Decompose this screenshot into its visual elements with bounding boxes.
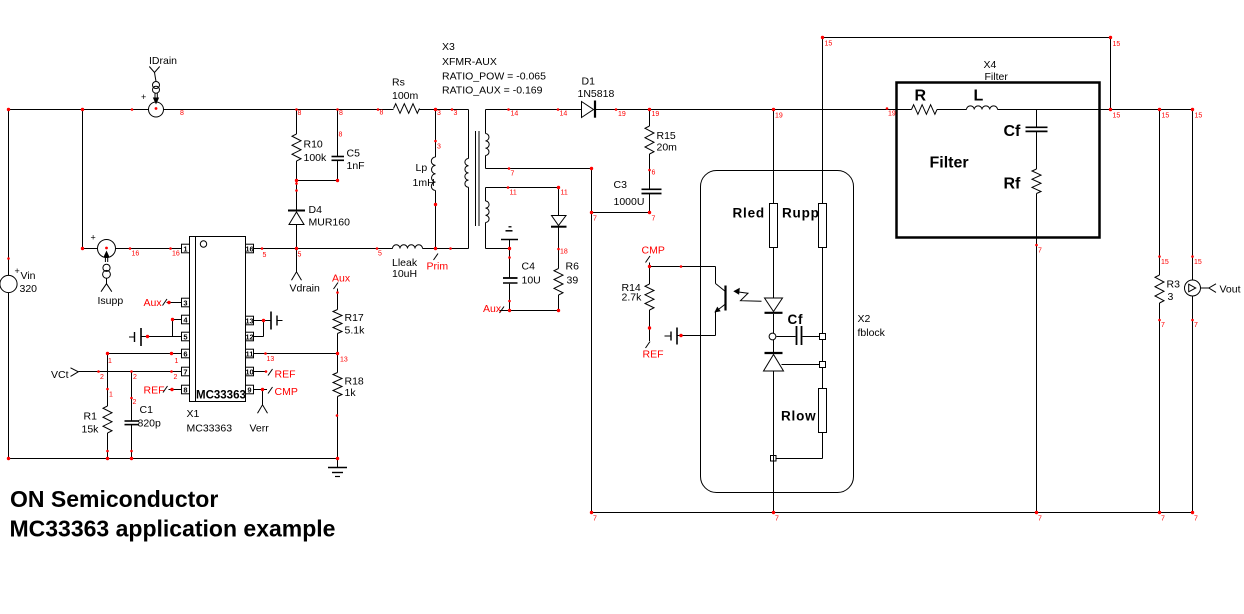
wire CMP stub [649,263,651,267]
wire C4 top [509,249,511,278]
svg-text:11: 11 [246,349,254,358]
svg-text:1: 1 [183,244,187,253]
svg-text:+: + [15,266,20,276]
wire square to square2 [822,340,824,362]
wire R3 column bottom [1159,303,1161,513]
pin 4 box [182,315,190,324]
svg-text:15: 15 [1113,41,1121,48]
aux diode cathode bar [551,226,567,228]
svg-text:11: 11 [510,190,517,197]
svg-text:15: 15 [825,41,833,48]
svg-text:39: 39 [567,275,579,287]
svg-text:C5: C5 [347,148,361,160]
transformer core line 1 [475,131,477,226]
svg-text:19: 19 [652,111,660,118]
svg-text:Aux: Aux [483,303,502,315]
svg-text:8: 8 [183,385,187,394]
inductor Lp [431,157,435,191]
svg-text:2: 2 [133,399,137,406]
svg-text:13: 13 [267,356,275,363]
svg-text:3: 3 [454,110,458,117]
pin 6 box [182,349,190,358]
resistor Rupp box [819,204,827,248]
net label Aux at pin3 [163,299,168,306]
wire emitter row [678,335,716,337]
resistor Rled box [770,204,778,248]
transformer primary lead [468,110,470,159]
svg-text:16: 16 [172,251,180,258]
wire top rail after IDrain [164,109,394,111]
wire Rled to LED [773,247,775,298]
node square junction 3 [771,456,777,462]
wire C1 column bottom [131,425,133,459]
svg-text:1nF: 1nF [347,160,365,172]
IDrain node dot [155,107,158,110]
svg-text:7: 7 [652,216,656,223]
svg-text:7: 7 [775,516,779,523]
opto transistor collector drop [715,267,717,284]
svg-text:5: 5 [298,252,302,259]
Isupp arrow shaft [104,255,106,262]
svg-text:5: 5 [378,251,382,258]
pin 10 box [246,367,254,376]
svg-text:RATIO_AUX = -0.169: RATIO_AUX = -0.169 [442,85,543,97]
diode D4 cathode bar [288,210,305,212]
capacitor Cf wire left [777,336,796,338]
pin 9 box [246,385,254,394]
wire node15 top row [823,37,1111,39]
svg-text:CMP: CMP [275,386,298,398]
svg-text:R6: R6 [566,261,580,273]
Vout probe symbol [1188,284,1190,293]
wire Cf4 column top [1036,110,1038,128]
IC X1 body [190,237,246,402]
svg-text:C4: C4 [522,261,536,273]
resistor Rs [394,104,420,114]
resistor Rf [1032,169,1041,194]
svg-text:MC33363: MC33363 [187,423,233,435]
svg-text:7: 7 [183,367,187,376]
wire pin16 row to Lleak [254,248,393,250]
svg-text:6: 6 [652,170,656,177]
wire node7 column [591,169,593,513]
svg-text:Prim: Prim [427,261,449,273]
net label Aux at C4 [500,307,505,314]
wire C5 column top [337,110,339,157]
svg-text:3: 3 [183,298,187,307]
svg-text:Lp: Lp [416,162,428,174]
IC X1 pin1 mark circle [200,241,206,247]
net label REF at pin10 [268,369,273,376]
svg-text:Rs: Rs [392,77,405,89]
svg-text:19: 19 [888,111,896,118]
svg-text:7: 7 [593,216,597,223]
IDrain arrow head [153,98,159,105]
wire pin10 stub [254,371,267,373]
svg-text:8: 8 [380,110,384,117]
Vdrain open pin symbol [292,272,302,281]
svg-text:8: 8 [339,110,343,117]
wire Isupp drop column [82,110,84,249]
wire Rf bottom column [1036,194,1038,513]
Isupp bubble circle 2 [103,270,111,278]
wire Rlow return row [776,458,823,460]
capacitor Cf [796,326,798,345]
block X4 box [897,83,1100,238]
svg-text:12: 12 [245,332,253,341]
svg-text:1000U: 1000U [614,196,645,208]
svg-text:2: 2 [100,374,104,381]
LED cathode bar [765,312,783,314]
resistor R17 [333,310,342,334]
svg-text:R15: R15 [657,130,676,142]
node square junction 2 [820,362,826,368]
LED triangle [765,298,783,312]
svg-text:XFMR-AUX: XFMR-AUX [442,56,497,68]
wire aux row [486,187,559,189]
resistor R18 [333,373,342,397]
svg-text:820p: 820p [138,418,162,430]
wire R15 to C3 [649,154,651,189]
wire pin6 row [108,353,182,355]
svg-text:+: + [141,92,146,102]
battery symbol at pin5 [140,328,142,346]
svg-text:19: 19 [618,111,626,118]
opto transistor base bar [724,286,726,311]
wire R18 bottom [337,397,339,459]
wire C1 column top [131,372,133,421]
ground symbol [337,459,339,468]
svg-text:1: 1 [109,392,113,399]
wire Vout stub [1201,287,1209,289]
svg-text:100k: 100k [304,152,328,164]
svg-text:15: 15 [1161,259,1169,266]
svg-text:100m: 100m [392,90,419,102]
svg-text:D1: D1 [582,76,596,88]
svg-text:5: 5 [183,332,187,341]
wire Rupp column top [822,38,824,204]
battery symbol at opto emitter [676,328,678,345]
block X2 rounded box [701,171,854,493]
svg-text:R1: R1 [84,411,98,423]
wire top rail Rs to primary corner [420,109,469,111]
svg-text:Filter: Filter [985,71,1009,83]
wire Aux to R17 [337,289,339,310]
pin 5 box [182,332,190,341]
capacitor C1 [125,420,139,422]
svg-text:14: 14 [511,111,519,118]
resistor R10 [292,134,301,161]
svg-text:VCt: VCt [51,369,69,381]
wire CMP row [650,266,716,268]
svg-text:C3: C3 [614,179,628,191]
svg-text:7: 7 [1038,516,1042,523]
svg-text:3: 3 [437,110,441,117]
VCt chevron [71,368,79,377]
wire D4 column bottom [296,225,298,249]
transformer primary winding [465,159,469,188]
diode D4 triangle [289,212,304,225]
opto light arrow head [733,288,740,295]
svg-text:1k: 1k [345,387,357,399]
svg-text:Verr: Verr [250,423,270,435]
Vdrain stub wire [296,249,298,272]
wire pin13 row [254,320,271,322]
svg-text:Cf: Cf [788,312,804,327]
wire C3 bottom [649,194,651,213]
svg-text:10: 10 [245,367,253,376]
node square junction right [820,334,826,340]
wire junction to R18 [337,354,339,373]
wire zener anode row [782,364,820,366]
svg-text:Rf: Rf [1004,176,1022,193]
capacitor C3 [642,188,662,190]
wire top rail left segment [9,109,149,111]
svg-text:1: 1 [175,358,179,365]
Verr open pin symbol [258,405,268,414]
wire pin5 row [142,336,182,338]
zener triangle [764,355,784,372]
svg-text:7: 7 [1194,322,1198,329]
svg-text:13: 13 [245,316,253,325]
svg-text:Isupp: Isupp [98,295,124,307]
svg-text:X2: X2 [858,313,871,325]
wire left input column lower [8,293,10,459]
diode D1 cathode bar [594,101,596,118]
Isupp arrow head [103,251,109,258]
svg-text:20m: 20m [657,142,678,154]
IDrain arrow shaft [154,93,156,100]
IC X1 inner line [195,237,197,402]
transformer primary lead bottom [468,187,470,248]
wire R1 column bottom [107,433,109,459]
wire R14 bottom [649,310,651,341]
svg-text:5.1k: 5.1k [345,325,366,337]
wire pin11 row [254,353,338,355]
wire L to right [998,109,1193,111]
wire primary ground rail [9,458,338,460]
wire Lleak to primary [423,248,469,250]
svg-text:3: 3 [1168,291,1174,303]
capacitor Cf wire right [803,336,820,338]
svg-text:6: 6 [183,349,187,358]
svg-text:2: 2 [133,374,137,381]
inductor L filter [967,106,998,110]
svg-text:2.7k: 2.7k [622,292,643,304]
svg-text:7: 7 [593,516,597,523]
svg-text:RATIO_POW = -0.065: RATIO_POW = -0.065 [442,71,546,83]
svg-text:X1: X1 [187,408,200,420]
resistor R6 [554,269,563,296]
voltage source Vin circle [0,275,17,292]
svg-text:5: 5 [263,252,267,259]
wire LED to node circle [773,314,775,334]
resistor Rlow box [819,389,827,433]
Isupp node dot [105,247,108,250]
svg-text:3: 3 [437,144,441,151]
transformer secondary lead mid [485,156,487,169]
svg-text:R10: R10 [304,139,323,151]
svg-text:14: 14 [560,111,568,118]
wire pin9 stub [254,389,268,391]
svg-text:X3: X3 [442,41,455,53]
pin 11 box [246,349,254,358]
wire C3 return row [592,212,650,214]
wire Vout column bottom [1192,296,1194,513]
svg-text:L: L [974,88,984,105]
opto transistor emitter arrow [714,307,720,313]
resistor R3 [1155,275,1164,303]
net label REF [646,342,651,349]
wire Cf4 to Rf [1036,132,1038,169]
svg-text:15: 15 [1195,113,1203,120]
svg-text:R17: R17 [345,312,364,324]
transformer secondary lead top [485,110,487,134]
wire node15 drop [1110,38,1112,110]
wire Rlow bottom [822,432,824,459]
net label REF at pin8 [163,386,168,393]
wire R17 to junction [337,334,339,354]
wire VCt row [79,371,182,373]
current source Isupp circle [98,240,116,258]
svg-text:Rupp: Rupp [782,206,820,221]
zener cathode bar [765,352,783,354]
wire D1 cathode to filter [596,109,912,111]
aux diode triangle [552,216,567,226]
capacitor C5 [332,156,345,158]
wire square2 to Rlow [822,368,824,389]
svg-text:R: R [915,88,927,105]
wire R3 column top [1159,110,1161,276]
wire Lp column top [435,110,437,158]
opto transistor emitter drop [715,312,717,336]
wire secondary mid-tap row [486,168,592,170]
svg-text:X4: X4 [984,59,997,71]
svg-text:16: 16 [245,244,253,253]
wire pin3 Aux stub [167,302,182,304]
svg-text:8: 8 [298,110,302,117]
wire zener to bottom [773,371,775,513]
svg-text:Rlow: Rlow [781,408,816,423]
svg-text:REF: REF [144,385,165,397]
red net markers [7,108,10,111]
pin 3 box [182,298,190,307]
Vout probe circle [1185,280,1201,296]
svg-text:REF: REF [275,369,296,381]
wire R10 column bottom [296,161,298,181]
svg-text:1mH: 1mH [413,177,435,189]
transformer core line 2 [478,131,480,226]
wire secondary bottom rail [592,512,1193,514]
opto light arrow [737,292,762,302]
svg-text:11: 11 [561,190,568,197]
svg-text:Filter: Filter [930,155,969,172]
svg-text:7: 7 [1161,322,1165,329]
wire Verr drop [262,390,264,405]
net label CMP [646,256,651,263]
svg-text:9: 9 [247,385,251,394]
svg-text:16: 16 [132,251,140,258]
wire R6 bottom [558,295,560,311]
svg-text:R18: R18 [345,376,364,388]
node circle junction [769,333,776,340]
svg-text:CMP: CMP [642,245,665,257]
wire pin4 down [172,320,174,337]
resistor R15 [645,126,654,154]
svg-text:MUR160: MUR160 [309,217,351,229]
earth symbol at C4 [509,240,511,249]
resistor R filter [912,105,938,115]
wire R10 column top [296,110,298,135]
aux diode lead top [558,188,560,216]
svg-text:Vdrain: Vdrain [290,283,321,295]
opto transistor collector diagonal [716,284,725,292]
svg-text:C1: C1 [140,404,154,416]
svg-text:Cf: Cf [1004,123,1022,140]
capacitor Cf filter [1026,126,1048,128]
svg-text:7: 7 [1194,516,1198,523]
wire Rled column top [773,110,775,204]
wire pin12 stub [254,336,264,338]
svg-text:15: 15 [1194,259,1202,266]
IDrain bubble circle 1 [153,82,160,89]
resistor R1 [103,406,112,433]
svg-text:15: 15 [1162,113,1170,120]
pin 1 box [182,244,190,253]
svg-text:2: 2 [174,374,178,381]
wire left input column upper [8,110,10,276]
wire Vout column top [1192,110,1194,281]
svg-text:15: 15 [1113,113,1121,120]
svg-text:1: 1 [108,358,112,365]
resistor R14 [649,267,651,285]
transformer aux winding lead [485,188,487,202]
svg-text:8: 8 [339,132,343,139]
net label CMP at pin9 [268,387,273,394]
wire aux net row [500,310,559,312]
svg-text:Vin: Vin [21,270,36,282]
wire Isupp to pin 1 [116,248,182,250]
wire pin4 stub [173,319,182,321]
wire aux diode to R6 [558,228,560,269]
svg-text:REF: REF [643,349,664,361]
IDrain bubble circle 2 [153,86,160,93]
wire R15 top [649,110,651,127]
wire R to L [937,109,967,111]
svg-text:Aux: Aux [144,297,163,309]
wire R1 column top [107,354,109,407]
opto transistor emitter diagonal [716,305,725,312]
svg-text:8: 8 [180,110,184,117]
IDrain fork symbol [149,67,159,73]
svg-text:1N5818: 1N5818 [578,88,615,100]
transformer secondary winding [486,134,490,156]
wire Isupp corner to source [83,248,99,250]
transformer aux lead bottom [485,223,487,249]
net label Aux at R17 [334,283,339,290]
current source IDrain circle [149,102,164,117]
transformer aux winding [485,201,489,223]
svg-text:Aux: Aux [332,273,351,285]
svg-text:IDrain: IDrain [149,55,177,67]
svg-text:+: + [91,233,96,243]
svg-text:R3: R3 [1167,279,1181,291]
svg-text:19: 19 [775,113,783,120]
wire aux bottom corner [486,248,510,250]
wire C4 bottom [509,284,511,311]
wire Rupp to square [822,248,824,334]
wire snubber bottom connector [297,180,338,182]
